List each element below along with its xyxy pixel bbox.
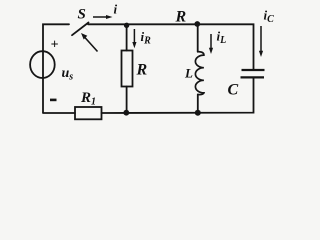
- resistor R1 box: [75, 107, 102, 119]
- current arrow iL: [209, 34, 213, 54]
- wire top main: [88, 24, 254, 69]
- current arrow iR: [132, 29, 136, 48]
- node top junction 1: [124, 23, 129, 28]
- wire top-left segment: [43, 24, 69, 112]
- switch S blade: [72, 23, 89, 36]
- svg-text:R: R: [136, 62, 148, 79]
- node bottom junction 1: [123, 110, 129, 116]
- svg-text:C: C: [228, 82, 239, 99]
- switch action arrow: [81, 33, 98, 52]
- inductor L coil: [195, 52, 204, 95]
- node bottom junction 2: [195, 110, 201, 116]
- wire bottom rail right: [102, 79, 254, 114]
- svg-text:R: R: [175, 9, 187, 26]
- voltage source us circle: [30, 51, 55, 78]
- current arrow iC: [259, 26, 263, 57]
- resistor R box: [122, 51, 133, 87]
- wire R branch: [126, 25, 128, 51]
- wire bottom rail left: [43, 112, 75, 114]
- svg-text:i: i: [114, 2, 118, 17]
- svg-text:L: L: [184, 66, 193, 81]
- wire L branch: [197, 24, 199, 52]
- current arrow i: [93, 15, 113, 19]
- svg-text:S: S: [78, 7, 86, 23]
- node top junction 2: [194, 21, 200, 27]
- capacitor C plates: [241, 70, 265, 77]
- label -: [50, 99, 57, 102]
- svg-text:+: +: [51, 38, 59, 53]
